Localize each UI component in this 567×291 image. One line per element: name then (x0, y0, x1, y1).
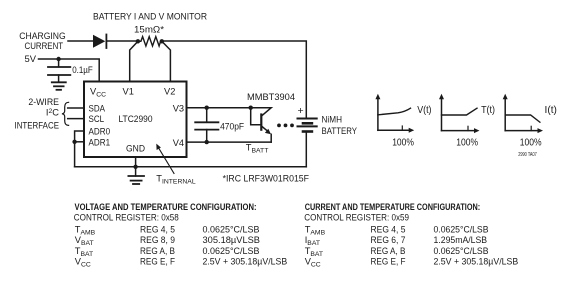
node battery cells dots (277, 124, 281, 128)
graph V(t) axes (377, 98, 379, 131)
node resistor right (160, 39, 164, 43)
wire GND pin (135, 157, 137, 167)
svg-text:I2C: I2C (46, 107, 59, 117)
wire Q1 collector top (251, 108, 272, 116)
transistor Q1 emitter (262, 127, 268, 132)
svg-text:VCC: VCC (305, 257, 321, 269)
svg-text:GND: GND (126, 143, 145, 153)
graph T(t) axes (441, 98, 443, 131)
svg-text:V2: V2 (164, 87, 175, 97)
svg-text:TBATT: TBATT (246, 143, 269, 155)
graph T(t) curve (442, 108, 478, 115)
wire V2 sense (162, 41, 171, 81)
node ADR1 tie (72, 140, 76, 144)
wire battery negative to rail (305, 133, 307, 167)
svg-text:V(t): V(t) (417, 105, 431, 116)
svg-text:MMBT3904: MMBT3904 (247, 92, 295, 102)
svg-text:2.5V + 305.18µV/LSB: 2.5V + 305.18µV/LSB (434, 257, 519, 267)
wire charging input (68, 40, 93, 42)
wire V3 (187, 107, 251, 109)
svg-text:15mΩ*: 15mΩ* (134, 24, 164, 34)
wire diode to resistor (106, 40, 138, 42)
svg-text:0.0625°C/LSB: 0.0625°C/LSB (203, 224, 260, 234)
wire 5V to VCC (39, 59, 100, 82)
svg-text:0.1µF: 0.1µF (72, 65, 93, 75)
wire SDA (68, 107, 84, 109)
graph V(t) tick (401, 126, 403, 130)
svg-text:T(t): T(t) (481, 105, 495, 116)
svg-text:CHARGING: CHARGING (19, 31, 65, 41)
wire ADR1 (75, 141, 84, 143)
node V3 cap (205, 106, 209, 110)
wire SCL (68, 118, 84, 120)
svg-text:TINTERNAL: TINTERNAL (156, 174, 196, 186)
svg-text:TAMB: TAMB (305, 224, 326, 236)
diode D1 (93, 35, 105, 48)
node resistor left (136, 39, 140, 43)
svg-text:ADR0: ADR0 (89, 127, 111, 137)
ground (bypass cap) (52, 81, 66, 83)
svg-text:100%: 100% (520, 136, 542, 148)
graph V(t) curve (378, 108, 411, 115)
svg-text:0.0625°C/LSB: 0.0625°C/LSB (434, 246, 489, 256)
node V4 cap (205, 140, 209, 144)
wire ADR0 (75, 131, 84, 167)
svg-text:5V: 5V (25, 54, 37, 64)
graph I(t) curve (505, 115, 540, 122)
svg-text:REG 8, 9: REG 8, 9 (140, 235, 175, 245)
resistor R1 15mOhm sense (138, 37, 162, 46)
svg-text:100%: 100% (392, 136, 414, 148)
transistor Q1 base bar (260, 115, 262, 130)
graph I(t) axes (504, 98, 506, 131)
node Q1 collector-base tie (249, 106, 253, 110)
svg-text:0.0625°C/LSB: 0.0625°C/LSB (434, 224, 489, 234)
svg-text:VCC: VCC (75, 257, 91, 269)
svg-text:ADR1: ADR1 (89, 137, 111, 147)
brace I2C (62, 102, 69, 125)
svg-text:2-WIRE: 2-WIRE (28, 97, 59, 107)
svg-text:CONTROL REGISTER: 0x58: CONTROL REGISTER: 0x58 (74, 213, 179, 223)
svg-text:SCL: SCL (89, 114, 105, 124)
svg-text:VOLTAGE AND TEMPERATURE CONFIG: VOLTAGE AND TEMPERATURE CONFIGURATION: (75, 202, 257, 212)
graph T(t) tick (467, 126, 469, 130)
svg-text:V3: V3 (173, 104, 184, 114)
svg-text:2.5V + 305.18µV/LSB: 2.5V + 305.18µV/LSB (203, 257, 288, 267)
svg-text:BATTERY I AND V MONITOR: BATTERY I AND V MONITOR (93, 12, 207, 22)
wire Q1 base (251, 108, 261, 125)
node 5V cap junction (56, 57, 60, 61)
capacitor C2 470pF (206, 108, 208, 122)
svg-text:SDA: SDA (89, 104, 106, 114)
svg-text:BATTERY: BATTERY (322, 126, 358, 136)
svg-text:I(t): I(t) (545, 105, 557, 116)
wire ground rail (75, 166, 307, 168)
svg-text:+: + (298, 105, 304, 117)
svg-text:REG A, B: REG A, B (371, 246, 406, 256)
svg-text:CURRENT AND TEMPERATURE CONFIG: CURRENT AND TEMPERATURE CONFIGURATION: (305, 202, 481, 212)
node GND rail (133, 165, 137, 169)
svg-text:NiMH: NiMH (322, 115, 343, 125)
wire V4 (187, 141, 272, 143)
wire V1 sense (130, 41, 138, 81)
svg-text:REG 4, 5: REG 4, 5 (371, 224, 406, 234)
svg-text:*IRC LRF3W01R015F: *IRC LRF3W01R015F (223, 173, 310, 183)
svg-text:2990 TA07: 2990 TA07 (518, 152, 537, 158)
svg-text:REG 6, 7: REG 6, 7 (371, 235, 406, 245)
svg-text:LTC2990: LTC2990 (119, 114, 153, 124)
svg-text:V1: V1 (123, 87, 134, 97)
ground (main) (135, 167, 137, 176)
svg-text:305.18µVLSB: 305.18µVLSB (203, 235, 261, 245)
svg-text:100%: 100% (456, 136, 478, 148)
svg-text:470pF: 470pF (220, 121, 244, 131)
arrow T internal pointer (159, 148, 175, 174)
svg-text:REG E, F: REG E, F (371, 257, 406, 267)
svg-text:REG A, B: REG A, B (140, 246, 175, 256)
svg-text:INTERFACE: INTERFACE (15, 121, 60, 131)
svg-text:0.0625°C/LSB: 0.0625°C/LSB (203, 246, 260, 256)
svg-text:CURRENT: CURRENT (25, 41, 64, 51)
svg-text:V4: V4 (173, 138, 184, 148)
svg-text:CONTROL REGISTER: 0x59: CONTROL REGISTER: 0x59 (304, 213, 409, 223)
svg-text:REG E, F: REG E, F (140, 257, 175, 267)
IC U1 LTC2990 (84, 82, 187, 158)
graph I(t) tick (530, 126, 532, 130)
capacitor C1 0.1uF (58, 59, 60, 67)
wire top rail to battery (162, 41, 306, 118)
svg-text:REG 4, 5: REG 4, 5 (140, 224, 175, 234)
svg-text:1.295mA/LSB: 1.295mA/LSB (434, 235, 488, 245)
